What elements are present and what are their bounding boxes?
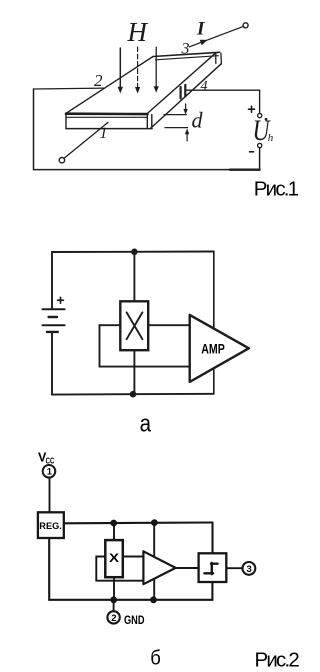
svg-text:1: 1 xyxy=(100,125,108,142)
svg-text:AMP: AMP xyxy=(201,342,225,357)
svg-text:REG.: REG. xyxy=(39,521,62,531)
svg-text:CC: CC xyxy=(46,455,55,465)
svg-text:Рис.2: Рис.2 xyxy=(255,649,300,672)
svg-text:4: 4 xyxy=(201,79,208,94)
svg-text:1: 1 xyxy=(47,467,53,478)
svg-text:H: H xyxy=(127,17,149,47)
svg-text:2: 2 xyxy=(94,71,103,90)
svg-text:Рис.1: Рис.1 xyxy=(254,178,299,201)
svg-text:б: б xyxy=(150,646,161,669)
svg-text:X: X xyxy=(109,551,119,565)
svg-text:I: I xyxy=(196,19,205,40)
svg-text:h: h xyxy=(268,132,274,144)
svg-text:d: d xyxy=(192,107,204,132)
svg-text:GND: GND xyxy=(124,613,145,627)
svg-text:а: а xyxy=(140,411,152,438)
svg-text:3: 3 xyxy=(247,564,252,575)
svg-text:3: 3 xyxy=(181,40,190,57)
svg-text:2: 2 xyxy=(111,613,116,624)
